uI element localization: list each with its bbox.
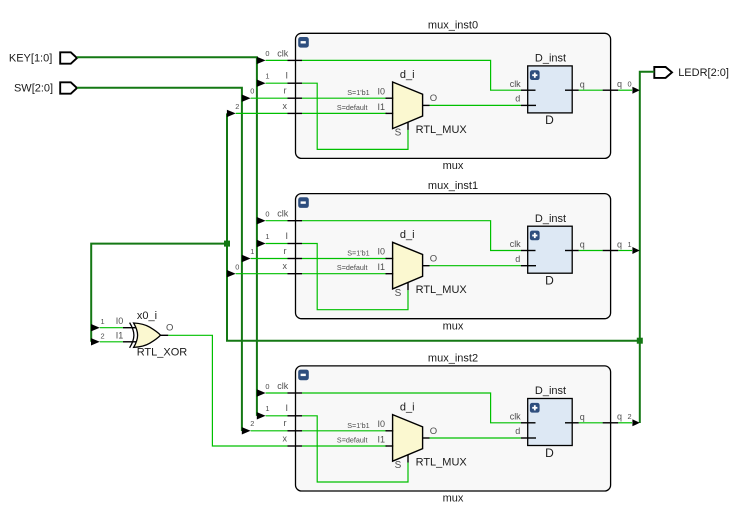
svg-text:I0: I0 xyxy=(377,419,385,429)
svg-text:q: q xyxy=(617,79,622,89)
svg-text:S: S xyxy=(395,288,402,299)
svg-text:x: x xyxy=(283,101,288,111)
flip-flop D_inst in mux_inst1 xyxy=(510,213,585,288)
svg-text:1: 1 xyxy=(265,72,269,81)
svg-text:I1: I1 xyxy=(377,435,385,445)
xor gate x0_i xyxy=(116,310,188,358)
svg-text:q: q xyxy=(617,412,622,422)
svg-text:clk: clk xyxy=(510,79,521,89)
svg-text:0: 0 xyxy=(265,210,269,219)
svg-text:D: D xyxy=(545,113,554,127)
input port KEY[1:0] xyxy=(9,52,77,64)
svg-text:mux: mux xyxy=(443,160,464,172)
svg-text:0: 0 xyxy=(627,80,631,89)
svg-text:mux_inst2: mux_inst2 xyxy=(428,352,478,364)
tap SW[2] to r of mux_inst2 xyxy=(242,427,251,434)
wire clk to flop in mux_inst2 xyxy=(302,393,521,423)
svg-text:2: 2 xyxy=(235,102,239,111)
tap feedback[2] to xor I1 xyxy=(91,338,100,345)
tap KEY[1] to I of mux_inst1 xyxy=(257,240,266,247)
junction feedback/branch xyxy=(224,241,230,247)
collapse icon mux_inst1 xyxy=(298,197,309,208)
svg-text:S: S xyxy=(395,460,402,471)
svg-text:mux: mux xyxy=(443,493,464,505)
svg-text:d_i: d_i xyxy=(400,401,415,413)
svg-text:clk: clk xyxy=(277,381,288,391)
junction LEDR/feedback xyxy=(637,338,643,344)
svg-text:RTL_MUX: RTL_MUX xyxy=(416,124,468,136)
wire flop q to block edge in mux_inst2 xyxy=(579,422,603,424)
pin x of mux_inst2 xyxy=(288,445,303,447)
svg-text:S: S xyxy=(395,128,402,139)
svg-text:0: 0 xyxy=(265,382,269,391)
tap KEY[1] to I of mux_inst0 xyxy=(257,80,266,87)
svg-text:1: 1 xyxy=(265,404,269,413)
svg-text:S=1'b1: S=1'b1 xyxy=(347,88,369,97)
pin I of mux_inst0 xyxy=(288,82,303,84)
svg-text:D: D xyxy=(545,446,554,460)
wire q of mux_inst2 to LEDR bus xyxy=(618,422,632,424)
svg-text:0: 0 xyxy=(235,263,239,272)
svg-text:d: d xyxy=(515,426,520,436)
pin q of mux_inst0 xyxy=(603,89,619,91)
svg-text:d_i: d_i xyxy=(400,69,415,81)
wire mux O to flop d in mux_inst1 xyxy=(430,265,521,267)
wire r to mux I0 in mux_inst0 xyxy=(302,97,387,99)
tap KEY[0] to clk of mux_inst2 xyxy=(257,389,266,396)
svg-text:I1: I1 xyxy=(377,262,385,272)
svg-text:r: r xyxy=(284,418,287,428)
pin I of mux_inst1 xyxy=(288,243,303,245)
svg-text:x0_i: x0_i xyxy=(137,310,157,322)
pin x of mux_inst0 xyxy=(288,112,303,114)
wire x to mux I1 in mux_inst2 xyxy=(302,445,387,447)
tap KEY[0] to clk of mux_inst1 xyxy=(257,217,266,224)
tap KEY[0] to clk of mux_inst0 xyxy=(257,57,266,64)
svg-text:d_i: d_i xyxy=(400,229,415,241)
wire feedback branch bus to XOR xyxy=(91,244,227,342)
tap feedback[0] to x of mux_inst1 xyxy=(227,270,236,277)
wire r to mux I0 in mux_inst1 xyxy=(302,258,387,260)
mux d_i in mux_inst1 xyxy=(337,229,467,299)
tap feedback[1] to xor I0 xyxy=(91,324,100,331)
svg-text:q: q xyxy=(580,79,585,89)
wire flop q to block edge in mux_inst0 xyxy=(579,89,603,91)
mux d_i in mux_inst2 xyxy=(337,401,467,471)
svg-text:I: I xyxy=(285,403,288,413)
svg-text:KEY[1:0]: KEY[1:0] xyxy=(9,53,52,65)
svg-text:clk: clk xyxy=(277,209,288,219)
svg-text:r: r xyxy=(284,86,287,96)
svg-text:mux: mux xyxy=(443,320,464,332)
svg-text:RTL_XOR: RTL_XOR xyxy=(137,346,188,358)
svg-text:0: 0 xyxy=(250,87,254,96)
svg-text:q: q xyxy=(580,240,585,250)
svg-text:clk: clk xyxy=(510,411,521,421)
svg-text:I: I xyxy=(285,231,288,241)
svg-text:D: D xyxy=(545,274,554,288)
svg-text:1: 1 xyxy=(250,247,254,256)
svg-text:O: O xyxy=(166,323,173,334)
svg-text:0: 0 xyxy=(265,49,269,58)
module block mux_inst2 xyxy=(296,352,611,504)
module block mux_inst1 xyxy=(296,180,611,332)
tap feedback[2] to x of mux_inst0 xyxy=(227,110,236,117)
svg-text:x: x xyxy=(283,261,288,271)
svg-text:O: O xyxy=(430,426,437,437)
wire xor output to x of mux_inst2 xyxy=(168,335,287,446)
svg-text:1: 1 xyxy=(101,317,105,326)
wire KEY bus xyxy=(77,57,257,416)
pin I of mux_inst2 xyxy=(288,415,303,417)
svg-text:2: 2 xyxy=(627,412,631,421)
svg-text:S=default: S=default xyxy=(337,263,368,272)
wire clk to flop in mux_inst1 xyxy=(302,221,521,251)
svg-text:S=1'b1: S=1'b1 xyxy=(347,421,369,430)
pin clk of mux_inst2 xyxy=(288,392,303,394)
svg-text:S=1'b1: S=1'b1 xyxy=(347,249,369,258)
svg-text:x: x xyxy=(283,433,288,443)
svg-text:O: O xyxy=(430,254,437,265)
pin r of mux_inst1 xyxy=(288,258,303,260)
svg-text:I0: I0 xyxy=(377,247,385,257)
svg-text:mux_inst0: mux_inst0 xyxy=(428,20,478,32)
svg-text:2: 2 xyxy=(250,419,254,428)
flip-flop D_inst in mux_inst2 xyxy=(510,385,585,460)
svg-text:RTL_MUX: RTL_MUX xyxy=(416,284,468,296)
svg-text:I1: I1 xyxy=(377,102,385,112)
svg-text:S=default: S=default xyxy=(337,103,368,112)
wire q of mux_inst0 to LEDR bus xyxy=(618,89,632,91)
svg-text:I: I xyxy=(285,71,288,81)
wire I to mux select in mux_inst0 xyxy=(302,83,408,149)
svg-text:S=default: S=default xyxy=(337,436,368,445)
pin r of mux_inst2 xyxy=(288,430,303,432)
wire I to mux select in mux_inst1 xyxy=(302,244,408,310)
pin r of mux_inst0 xyxy=(288,97,303,99)
svg-text:1: 1 xyxy=(627,240,631,249)
svg-text:clk: clk xyxy=(277,48,288,58)
svg-text:I1: I1 xyxy=(116,330,124,340)
svg-text:d: d xyxy=(515,254,520,264)
svg-text:q: q xyxy=(580,412,585,422)
wire flop q to block edge in mux_inst1 xyxy=(579,250,603,252)
svg-text:SW[2:0]: SW[2:0] xyxy=(14,83,53,95)
input port SW[2:0] xyxy=(14,82,77,94)
wire x to mux I1 in mux_inst1 xyxy=(302,273,387,275)
svg-text:clk: clk xyxy=(510,239,521,249)
wire LEDR output bus xyxy=(640,72,655,423)
output port LEDR[2:0] xyxy=(654,67,729,79)
wire q of mux_inst1 to LEDR bus xyxy=(618,250,632,252)
wire SW bus xyxy=(77,88,242,431)
wire x to mux I1 in mux_inst0 xyxy=(302,112,387,114)
svg-text:D_inst: D_inst xyxy=(535,385,566,397)
wire mux O to flop d in mux_inst2 xyxy=(430,437,521,439)
svg-text:D_inst: D_inst xyxy=(535,213,566,225)
svg-text:r: r xyxy=(284,246,287,256)
pin x of mux_inst1 xyxy=(288,273,303,275)
flip-flop D_inst in mux_inst0 xyxy=(510,53,585,128)
wire I to mux select in mux_inst2 xyxy=(302,416,408,482)
svg-text:LEDR[2:0]: LEDR[2:0] xyxy=(678,67,729,79)
svg-text:mux_inst1: mux_inst1 xyxy=(428,180,478,192)
collapse icon mux_inst0 xyxy=(298,37,309,48)
mux d_i in mux_inst0 xyxy=(337,69,467,139)
tap KEY[1] to I of mux_inst2 xyxy=(257,412,266,419)
module block mux_inst0 xyxy=(296,20,611,172)
svg-text:I0: I0 xyxy=(116,316,124,326)
wire mux O to flop d in mux_inst0 xyxy=(430,104,521,106)
svg-text:O: O xyxy=(430,93,437,104)
svg-text:1: 1 xyxy=(265,232,269,241)
wire r to mux I0 in mux_inst2 xyxy=(302,430,387,432)
pin q of mux_inst2 xyxy=(603,422,619,424)
svg-text:D_inst: D_inst xyxy=(535,53,566,65)
wire feedback bus xyxy=(227,113,640,340)
tap SW[1] to r of mux_inst1 xyxy=(242,255,251,262)
svg-text:q: q xyxy=(617,239,622,249)
tap SW[0] to r of mux_inst0 xyxy=(242,95,251,102)
svg-text:2: 2 xyxy=(101,331,105,340)
pin q of mux_inst1 xyxy=(603,250,619,252)
wire clk to flop in mux_inst0 xyxy=(302,60,521,90)
svg-text:RTL_MUX: RTL_MUX xyxy=(416,456,468,468)
pin clk of mux_inst0 xyxy=(288,59,303,61)
pin clk of mux_inst1 xyxy=(288,220,303,222)
svg-text:I0: I0 xyxy=(377,86,385,96)
collapse icon mux_inst2 xyxy=(298,370,309,381)
svg-text:d: d xyxy=(515,94,520,104)
